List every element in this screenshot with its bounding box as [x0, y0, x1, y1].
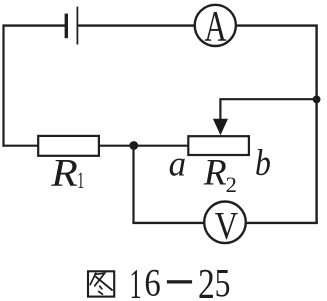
node: junction between R1, R2 and voltmeter branch: [129, 141, 138, 150]
svg-text:R: R: [50, 150, 78, 194]
svg-text:2: 2: [226, 172, 237, 197]
svg-text:6: 6: [144, 261, 160, 301]
wire: ammeter to top-right corner: [236, 24, 318, 26]
svg-text:b: b: [255, 142, 271, 184]
svg-text:5: 5: [215, 261, 231, 301]
label R1: [50, 150, 84, 194]
svg-text:2: 2: [198, 262, 215, 301]
resistor R1 body: [38, 136, 99, 156]
wire: R2 terminal a to junction node: [134, 145, 189, 147]
wire: left side to R1 left lead: [3, 145, 39, 147]
wire: left vertical side: [2, 25, 4, 147]
wire: bottom run from corner to voltmeter: [132, 222, 204, 224]
label a (left end of R2): [169, 143, 186, 184]
label R2: [203, 152, 237, 197]
node: slider tap junction on right wire: [313, 96, 321, 104]
svg-text:A: A: [204, 4, 226, 51]
wire: slider vertical drop to arrow: [219, 98, 221, 122]
svg-text:V: V: [215, 203, 238, 247]
slider arrow of rheostat R2: [213, 119, 228, 135]
svg-text:1: 1: [77, 169, 84, 194]
caption: character 图 (drawn strokes): [88, 271, 114, 296]
svg-text:a: a: [169, 143, 186, 184]
wire: battery to ammeter: [78, 24, 195, 26]
wire: R1 right lead to junction: [99, 145, 134, 147]
ammeter A (meter circle): [195, 4, 236, 51]
wire: right vertical side: [315, 25, 317, 225]
wire: junction down to voltmeter row: [132, 146, 134, 225]
svg-text:R: R: [203, 152, 227, 193]
svg-text:1: 1: [130, 261, 142, 301]
voltmeter V (meter circle): [204, 202, 246, 248]
rheostat R2 body: [188, 136, 249, 155]
wire: slider tap horizontal run: [220, 98, 316, 100]
wire: top segment from left corner to battery: [3, 24, 66, 26]
label b (right end of R2): [255, 142, 271, 184]
caption: figure number 16-25: [130, 261, 231, 301]
battery B1 (cell): [66, 7, 77, 45]
wire: voltmeter to bottom-right corner: [246, 222, 318, 224]
